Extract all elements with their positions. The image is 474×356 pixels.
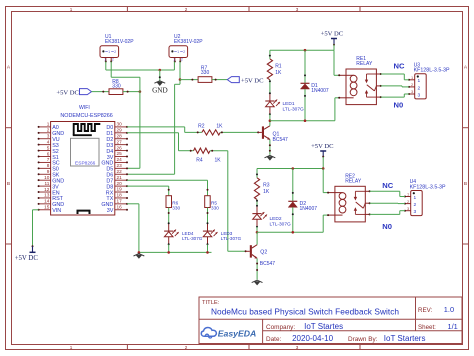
connector U4 KF128L-3.5-3P body <box>404 191 422 216</box>
diode D2 1N4007 <box>288 169 297 233</box>
U5 pin 15 VIN <box>38 205 62 215</box>
svg-text:330: 330 <box>211 205 219 210</box>
module U5 NODEMCU-ESP8266 body <box>51 122 115 216</box>
svg-text:2020-04-10: 2020-04-10 <box>292 334 333 343</box>
LED LED3 <box>203 222 218 245</box>
svg-text:VIN: VIN <box>52 208 61 214</box>
svg-text:2: 2 <box>185 345 188 350</box>
svg-text:20: 20 <box>117 181 123 186</box>
svg-text:N0: N0 <box>382 222 392 231</box>
relay RE2 body <box>327 186 371 222</box>
U5 pin 20 D8 <box>106 181 128 191</box>
wire junction up to U1 pin2 <box>139 77 141 91</box>
power flag +5V DC (right of R7) <box>227 77 239 83</box>
U5 pin 9 SK <box>38 169 60 179</box>
svg-text:GND: GND <box>152 87 168 95</box>
ground (Q1 emitter) <box>265 155 276 157</box>
svg-text:NC: NC <box>394 62 405 71</box>
svg-text:Date:: Date: <box>266 336 281 343</box>
svg-text:1N4007: 1N4007 <box>300 206 318 212</box>
svg-text:IoT Startes: IoT Startes <box>304 322 343 331</box>
svg-text:3: 3 <box>47 134 50 139</box>
junction +5V/RE2 coil <box>322 167 325 170</box>
EasyEDA logo <box>201 327 256 338</box>
connector U1 EK381V-02P <box>100 46 119 58</box>
svg-text:B: B <box>464 181 467 187</box>
antenna meander glyph <box>73 124 101 135</box>
svg-text:2: 2 <box>411 83 413 87</box>
svg-text:2: 2 <box>47 128 50 133</box>
svg-text:5: 5 <box>47 145 50 150</box>
junction LED3/rail <box>206 251 209 254</box>
ground (Q2 emitter) <box>252 280 263 282</box>
U5 pin 25 3V <box>107 151 128 161</box>
svg-text:1K: 1K <box>216 124 223 130</box>
junction R7/U2.2/D6 node <box>179 78 182 81</box>
ground GND (top) <box>159 70 161 84</box>
svg-text:18: 18 <box>117 193 123 198</box>
svg-text:1: 1 <box>407 193 409 197</box>
svg-text:IoT Starters: IoT Starters <box>384 334 426 343</box>
svg-text:1N4007: 1N4007 <box>311 88 329 94</box>
wire R4 to Q2 base <box>210 150 228 152</box>
svg-text:26: 26 <box>117 145 123 150</box>
transistor Q2 BC547 <box>245 245 258 259</box>
power flag +5V DC (left) <box>80 89 92 95</box>
U5 pin 6 S1 <box>38 151 59 161</box>
svg-text:1: 1 <box>70 345 73 350</box>
svg-text:3V: 3V <box>107 208 114 214</box>
svg-text:29: 29 <box>117 128 123 133</box>
svg-text:2: 2 <box>112 58 114 62</box>
resistor R5 <box>205 196 211 208</box>
svg-text:27: 27 <box>117 139 123 144</box>
svg-text:4: 4 <box>47 139 50 144</box>
svg-text:7: 7 <box>47 157 50 162</box>
svg-text:3: 3 <box>296 7 299 12</box>
wire GND pin17 to rail <box>127 203 139 205</box>
U5 pin 7 SC <box>38 157 60 167</box>
svg-text:1: 1 <box>177 50 179 54</box>
LED LED1 <box>265 92 280 115</box>
svg-text:21: 21 <box>117 175 123 180</box>
U5 pin 3 VU <box>38 134 60 144</box>
resistor R4 <box>194 148 211 153</box>
svg-text:+5V DC: +5V DC <box>56 89 79 96</box>
U1 pins 1,2 <box>104 58 114 63</box>
svg-text:1: 1 <box>414 195 417 201</box>
svg-text:ESP8266: ESP8266 <box>75 160 96 166</box>
wire LED2 to collector rail <box>256 227 258 232</box>
junction R8/U1.2/D5 node <box>139 90 142 93</box>
svg-text:EK381V-02P: EK381V-02P <box>174 39 203 45</box>
svg-text:9: 9 <box>47 169 50 174</box>
resistor R3 <box>256 169 258 178</box>
svg-text:RELAY: RELAY <box>345 178 362 184</box>
U5 pin 30 D0 <box>106 122 128 132</box>
relay RE1 body <box>338 69 382 105</box>
svg-text:8: 8 <box>47 163 50 168</box>
wire R2 to Q1 base <box>220 131 258 133</box>
wire R8 to junction <box>123 91 140 93</box>
wire D7 to R5 <box>127 179 208 181</box>
U5 pin 1 A0 <box>38 122 59 132</box>
svg-text:EK381V-02P: EK381V-02P <box>105 39 134 45</box>
svg-text:1K: 1K <box>263 189 270 195</box>
wire RE1 NC to U3 pin1 <box>381 73 405 75</box>
wire node to R7 <box>180 79 198 81</box>
wire U1 pin1 to GND net <box>105 62 107 71</box>
svg-text:WIFI: WIFI <box>79 105 90 111</box>
svg-text:13: 13 <box>44 193 50 198</box>
svg-text:1: 1 <box>70 7 73 12</box>
svg-text:Q2: Q2 <box>260 249 267 255</box>
svg-text:1: 1 <box>47 122 50 127</box>
wire LED4 to gnd rail <box>168 245 170 253</box>
svg-text:R1: R1 <box>275 64 282 70</box>
wire flag to R8 <box>92 91 110 93</box>
wire R7 node to pin D6 <box>179 80 181 85</box>
U2 pins 1,2 <box>173 58 183 63</box>
resistor R8 <box>109 89 123 95</box>
wire Q1 emitter to ground <box>269 140 271 155</box>
svg-text:1.0: 1.0 <box>444 305 454 314</box>
svg-text:NODEMCU-ESP8266: NODEMCU-ESP8266 <box>60 113 112 119</box>
svg-text:NodeMcu based Physical Switch: NodeMcu based Physical Switch Feedback S… <box>211 306 399 316</box>
coil return rail wire (RE2) <box>257 231 323 233</box>
U5 pin 21 D7 <box>106 175 128 185</box>
svg-text:1/1: 1/1 <box>448 322 458 331</box>
svg-text:B: B <box>7 181 10 187</box>
U5 pin 14 GND <box>38 199 65 209</box>
svg-text:BC547: BC547 <box>260 261 276 267</box>
junction D1 bottom <box>304 119 307 122</box>
U5 pin 17 GND <box>101 199 128 209</box>
wire R6 to LED4 <box>168 208 170 224</box>
svg-text:LTL-307G: LTL-307G <box>270 222 292 228</box>
svg-text:24: 24 <box>117 157 123 162</box>
wire junction down to pin D5 <box>139 92 141 169</box>
junction GND net <box>159 69 162 72</box>
U5 pin 26 D4 <box>106 145 128 155</box>
svg-text:+5V DC: +5V DC <box>321 30 344 37</box>
U5 pin 8 S0 <box>38 163 59 173</box>
svg-text:R4: R4 <box>196 158 203 164</box>
junction LED2/Q2 collector <box>256 231 259 234</box>
svg-text:KF128L-3.5-3P: KF128L-3.5-3P <box>414 68 450 74</box>
resistor R2 <box>202 130 220 135</box>
junction LED1/Q1 collector <box>269 119 272 122</box>
ground (LED rail) <box>134 254 145 256</box>
+5V rail wire (RE2) <box>257 168 323 170</box>
junction D2 bottom <box>292 231 295 234</box>
svg-text:3: 3 <box>418 92 421 98</box>
wire Q2 emitter to ground <box>256 258 258 279</box>
wire RE2 NC to U4 pin1 <box>370 190 400 192</box>
wire RE2 COM to U4 pin2 <box>370 202 398 204</box>
wire D8 to R6 <box>127 185 169 187</box>
U5 pin 23 D5 <box>106 163 128 173</box>
svg-text:KF128L-3.5-3P: KF128L-3.5-3P <box>410 184 446 190</box>
wire LED3 to gnd rail <box>207 245 209 253</box>
U5 pin 29 D1 <box>106 128 128 138</box>
svg-text:1K: 1K <box>215 158 222 164</box>
frame row letters <box>7 65 468 188</box>
U5 pin 10 GND <box>38 175 65 185</box>
U5 pin 13 RST <box>38 193 64 203</box>
wire D1 to R4 <box>127 132 179 134</box>
junction D2 top <box>292 167 295 170</box>
wire LED1 to collector rail <box>269 114 271 120</box>
svg-text:2: 2 <box>407 200 409 204</box>
ground rail wire <box>139 251 212 253</box>
U5 pin 27 D3 <box>106 139 128 149</box>
svg-text:15: 15 <box>44 205 50 210</box>
connector U3 KF128L-3.5-3P body <box>408 74 426 99</box>
svg-text:+5V DC: +5V DC <box>241 78 264 85</box>
svg-text:3: 3 <box>407 207 409 211</box>
junction LED4/rail <box>167 251 170 254</box>
wire R5 to LED3 <box>207 208 209 224</box>
title block border <box>199 297 462 344</box>
wire R3 to LED2 <box>256 200 258 206</box>
svg-text:2: 2 <box>418 85 421 91</box>
svg-text:BC547: BC547 <box>273 137 289 143</box>
U5 pin 5 S2 <box>38 145 59 155</box>
wire R1 to LED1 <box>269 80 271 93</box>
svg-text:Company:: Company: <box>266 324 295 331</box>
svg-text:10: 10 <box>44 175 50 180</box>
U5 pin 18 TX <box>106 193 128 203</box>
resistor R1 <box>269 50 271 59</box>
diode D1 1N4007 <box>300 50 309 121</box>
svg-text:LED2: LED2 <box>270 216 282 222</box>
svg-text:LTL-307G: LTL-307G <box>182 236 203 241</box>
wire R7 to +5V flag <box>212 79 227 81</box>
wire RE1 NO to U3 pin3 <box>381 96 405 98</box>
svg-text:3: 3 <box>411 90 413 94</box>
wire +5V rail to RE2 coil top <box>322 169 324 193</box>
svg-text:2: 2 <box>185 7 188 12</box>
svg-text:16: 16 <box>117 204 123 209</box>
wire +5V to coil top <box>333 50 335 75</box>
wire RE1 COM to U3 pin2 <box>381 85 402 87</box>
U5 pin 11 3V <box>38 181 60 191</box>
resistor R7 <box>198 77 212 83</box>
U5 pin 16 3V <box>107 204 128 214</box>
wire Q2 collector to rail <box>256 232 258 244</box>
svg-text:28: 28 <box>117 133 123 138</box>
ESP8266 chip box <box>71 138 100 166</box>
U5 pin 28 D2 <box>106 133 128 143</box>
svg-text:+5V DC: +5V DC <box>311 143 334 150</box>
+5V rail wire (RE1) <box>270 49 334 51</box>
svg-text:TITLE:: TITLE: <box>202 300 220 306</box>
junction rail/ground <box>138 251 141 254</box>
svg-text:12: 12 <box>44 187 50 192</box>
svg-text:+5V DC: +5V DC <box>15 255 39 262</box>
svg-text:1K: 1K <box>275 70 282 76</box>
svg-text:R3: R3 <box>263 182 270 188</box>
U5 pin 24 GND <box>101 157 128 167</box>
wire D0 to R2 <box>127 126 185 128</box>
svg-text:19: 19 <box>117 187 123 192</box>
svg-text:N0: N0 <box>394 101 404 110</box>
U5 pin 2 GND <box>38 128 65 138</box>
wire U2 pin1 down <box>173 62 175 71</box>
wire U2 pin2 down to R7 node <box>179 62 181 80</box>
U5 pin 4 S3 <box>38 139 59 149</box>
wire Q1 collector to rail <box>269 121 271 126</box>
USB notch glyph <box>78 211 90 214</box>
svg-text:14: 14 <box>44 199 50 204</box>
junction D1 top <box>304 49 307 52</box>
svg-text:2: 2 <box>181 58 183 62</box>
wire RE2 NO to U4 pin3 <box>370 213 400 215</box>
svg-text:REV:: REV: <box>418 307 432 314</box>
U5 pin 12 EN <box>38 187 60 197</box>
svg-text:23: 23 <box>117 163 123 168</box>
transistor Q1 BC547 <box>257 126 270 140</box>
svg-text:1: 1 <box>411 76 413 80</box>
svg-text:6: 6 <box>47 151 50 156</box>
frame column numbers <box>70 7 299 350</box>
coil return rail wire (RE1) <box>270 120 335 122</box>
svg-text:2: 2 <box>183 50 185 54</box>
svg-text:25: 25 <box>117 151 123 156</box>
wire VIN to +5V DC <box>33 209 39 211</box>
svg-text:NC: NC <box>382 181 393 190</box>
svg-text:17: 17 <box>117 199 123 204</box>
svg-text:3: 3 <box>414 209 417 215</box>
svg-text:30: 30 <box>117 122 123 127</box>
svg-text:LTL-307G: LTL-307G <box>221 236 242 241</box>
svg-text:22: 22 <box>117 169 123 174</box>
svg-text:330: 330 <box>112 84 121 90</box>
svg-text:Drawn By:: Drawn By: <box>348 336 378 343</box>
svg-text:1: 1 <box>418 78 421 84</box>
svg-text:330: 330 <box>201 70 210 76</box>
resistor R6 <box>166 196 172 208</box>
svg-text:11: 11 <box>45 181 50 186</box>
svg-text:2: 2 <box>114 50 116 54</box>
LED LED4 <box>164 222 179 245</box>
svg-text:Sheet:: Sheet: <box>418 324 436 331</box>
svg-text:RELAY: RELAY <box>356 61 373 67</box>
svg-text:1: 1 <box>108 50 110 54</box>
svg-text:3: 3 <box>296 345 299 350</box>
LED LED2 <box>252 205 267 228</box>
svg-text:2: 2 <box>414 202 417 208</box>
svg-text:R2: R2 <box>198 124 205 130</box>
U5 pin 22 D6 <box>106 169 128 179</box>
svg-text:LED1: LED1 <box>283 101 295 107</box>
U5 pin 19 RX <box>106 187 128 197</box>
svg-text:EasyEDA: EasyEDA <box>218 329 257 339</box>
svg-text:330: 330 <box>172 205 180 210</box>
connector U2 EK381V-02P <box>169 46 188 58</box>
svg-text:LTL-307G: LTL-307G <box>283 107 305 113</box>
power +5V DC (bottom left) <box>32 246 34 252</box>
